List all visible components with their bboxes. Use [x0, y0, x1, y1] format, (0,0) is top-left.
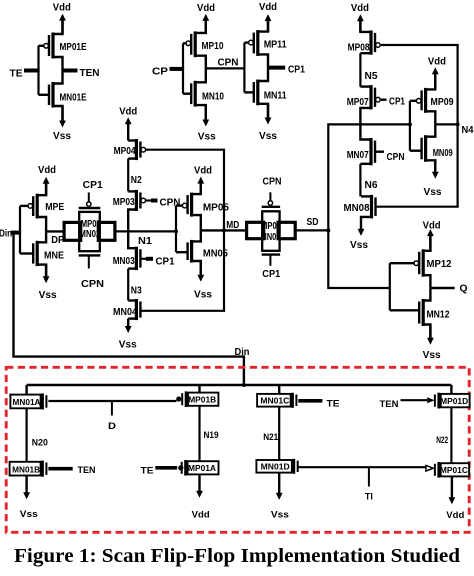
- power Vdd of MP08: [359, 19, 361, 32]
- transistor MP10 (PMOS): [194, 31, 197, 57]
- wire TE stub at MP01A: [155, 466, 177, 470]
- wire Din rail down to scan section: [14, 233, 244, 386]
- svg-text:Vdd: Vdd: [38, 165, 56, 176]
- svg-text:Vss: Vss: [350, 240, 368, 251]
- svg-text:N5: N5: [365, 71, 378, 82]
- svg-text:SD: SD: [307, 217, 319, 228]
- gate arrow of MP01C (hollow): [426, 465, 433, 471]
- wire Din input stub: [11, 231, 21, 235]
- transistor MN01A (scan NMOS): [25, 385, 27, 395]
- svg-text:Vss: Vss: [198, 131, 216, 142]
- transistor MP09 (PMOS): [424, 88, 427, 113]
- svg-text:MN04: MN04: [113, 307, 137, 318]
- node N2 wire: [127, 159, 129, 192]
- wire scan top rail: [27, 384, 452, 386]
- power Vdd of MP01A: [198, 474, 200, 493]
- transistor MP05 (PMOS): [190, 193, 193, 217]
- svg-text:TEN: TEN: [380, 399, 399, 410]
- node N5 wire: [359, 53, 361, 86]
- svg-text:MPE: MPE: [45, 202, 64, 213]
- svg-text:CP1: CP1: [389, 97, 405, 108]
- wire Q output stub: [430, 287, 454, 289]
- ground Vss of MN04: [127, 319, 129, 329]
- gate dot of MP01B: [176, 396, 181, 401]
- svg-text:TEN: TEN: [80, 68, 100, 79]
- svg-text:MP03: MP03: [113, 197, 135, 208]
- transistor MN01E (NMOS): [51, 82, 54, 108]
- svg-text:Vss: Vss: [20, 509, 38, 520]
- transistor MN05 (NMOS): [190, 240, 193, 263]
- power Vdd of MPE: [45, 181, 47, 195]
- node N3 wire: [127, 269, 129, 301]
- wire CP inverter gate wire: [182, 43, 184, 93]
- svg-text:MP09: MP09: [431, 97, 454, 108]
- svg-text:MNE: MNE: [44, 251, 64, 262]
- ground Vss of CP inverter: [205, 105, 207, 122]
- svg-text:TE: TE: [327, 399, 340, 410]
- transistor MN09 (NMOS): [424, 135, 427, 162]
- svg-text:N4: N4: [462, 125, 474, 136]
- svg-text:MP01D: MP01D: [440, 396, 468, 406]
- svg-text:Vdd: Vdd: [423, 220, 441, 231]
- transistor MP12 (PMOS): [422, 249, 425, 276]
- svg-text:N1: N1: [138, 236, 152, 247]
- wire TE stub at MN01C: [298, 399, 322, 403]
- node N22 wire: [450, 407, 452, 463]
- transistor MP07 (PMOS, mirrored): [369, 85, 372, 109]
- svg-text:Vss: Vss: [271, 510, 289, 521]
- transistor MP03 (PMOS, mirrored): [135, 190, 138, 211]
- power Vdd of CP1 inverter: [267, 19, 269, 32]
- transistor MN07 (NMOS, mirrored): [369, 138, 372, 165]
- wire MP07 gate stub: [381, 98, 387, 100]
- svg-text:MN11: MN11: [264, 91, 287, 102]
- wire feedback from MD to MP04 MN04 gates: [223, 150, 225, 311]
- wire TEN stub at MN01B: [48, 467, 72, 471]
- svg-text:Vss: Vss: [194, 290, 212, 301]
- transistor MP01B (scan PMOS): [198, 385, 200, 393]
- power Vdd of MP12: [429, 234, 431, 251]
- wire MP05 MN05 gate wire: [175, 206, 177, 253]
- transistor MPE (PMOS): [36, 194, 39, 219]
- wire N4 output line: [435, 123, 457, 125]
- transistor MN01C (scan NMOS): [278, 385, 280, 394]
- wire MP09 MN09 gate wire: [409, 101, 411, 151]
- svg-text:Vss: Vss: [53, 131, 71, 142]
- wire MP04 gate lead to feedback: [146, 149, 225, 151]
- ground Vss of MN01B: [25, 476, 27, 495]
- svg-text:MN09: MN09: [433, 148, 453, 159]
- svg-text:Figure 1: Scan Flip-Flop Imple: Figure 1: Scan Flip-Flop Implementation …: [14, 545, 460, 567]
- svg-text:Vss: Vss: [424, 187, 442, 198]
- svg-text:MN03: MN03: [113, 256, 135, 267]
- svg-text:MN05: MN05: [203, 249, 228, 260]
- svg-text:CP1: CP1: [288, 65, 305, 76]
- wire TEN output stub: [63, 69, 78, 73]
- svg-text:Vss: Vss: [423, 350, 441, 361]
- wire MN03 gate stub: [141, 258, 146, 260]
- wire CPN net between clock inverters: [206, 67, 246, 69]
- power Vdd of MP09: [434, 72, 436, 90]
- svg-text:CP1: CP1: [83, 180, 103, 191]
- svg-text:Vdd: Vdd: [351, 3, 369, 14]
- svg-text:N19: N19: [204, 430, 219, 440]
- svg-text:Din: Din: [0, 228, 12, 239]
- node N20 wire: [26, 408, 28, 462]
- power Vdd of MP04: [127, 122, 129, 141]
- ground Vss of TE inverter: [61, 106, 63, 123]
- node N19 wire: [198, 406, 200, 461]
- transistor MN11 (NMOS): [256, 80, 259, 106]
- svg-text:MN10: MN10: [202, 91, 224, 102]
- gate dot of MP01A: [178, 465, 183, 470]
- svg-text:MP01E: MP01E: [60, 42, 87, 53]
- svg-text:MP06: MP06: [261, 221, 281, 232]
- svg-text:MP05: MP05: [203, 202, 229, 213]
- svg-text:D: D: [108, 421, 116, 432]
- transistor MP08 (PMOS, mirrored): [369, 30, 372, 54]
- transmission gate MP02 MN02: [79, 212, 100, 251]
- wire TI line from MN01D gate to MP01C gate: [298, 466, 425, 468]
- svg-text:Vss: Vss: [259, 131, 277, 142]
- wire latch feedback vertical: [457, 45, 459, 207]
- svg-text:MP10: MP10: [202, 41, 224, 52]
- transistor MP01A (scan PMOS): [184, 460, 187, 476]
- svg-text:MN01D: MN01D: [261, 461, 290, 471]
- svg-text:N20: N20: [32, 438, 48, 448]
- svg-text:N21: N21: [263, 432, 278, 442]
- power Vdd of MP05: [200, 181, 202, 194]
- ground Vss of CP1 inverter: [267, 104, 269, 120]
- transistor MP01E (PMOS): [51, 33, 54, 59]
- svg-text:MP04: MP04: [114, 146, 136, 157]
- svg-text:Vdd: Vdd: [194, 165, 212, 176]
- svg-text:Vdd: Vdd: [428, 57, 446, 68]
- svg-text:MN01A: MN01A: [13, 397, 41, 407]
- power Vdd of MP01C: [451, 476, 453, 499]
- svg-text:MN08: MN08: [344, 203, 370, 214]
- transistor MP01C (scan PMOS): [437, 462, 440, 478]
- wire Din inverter gate wire: [19, 206, 21, 254]
- svg-text:N22: N22: [436, 435, 448, 445]
- svg-text:MD: MD: [226, 220, 239, 231]
- transistor MP11 (PMOS): [256, 30, 259, 56]
- svg-text:CP: CP: [152, 67, 168, 78]
- transistor MNE (NMOS): [36, 241, 39, 266]
- svg-text:TI: TI: [365, 492, 373, 503]
- wire TEN stub at MP01D: [401, 399, 428, 401]
- svg-text:Q: Q: [460, 283, 468, 294]
- ground Vss of MN05: [200, 261, 202, 277]
- power Vdd of TE inverter: [61, 18, 63, 34]
- svg-text:CP1: CP1: [156, 256, 175, 267]
- ground Vss of MN09: [434, 160, 436, 174]
- svg-text:MN01B: MN01B: [12, 464, 40, 474]
- svg-text:MP12: MP12: [427, 259, 452, 270]
- svg-text:MP01C: MP01C: [440, 465, 468, 475]
- node N6 wire: [359, 164, 361, 197]
- svg-text:MP11: MP11: [264, 40, 287, 51]
- svg-text:N6: N6: [365, 180, 378, 191]
- svg-text:MP07: MP07: [347, 97, 369, 108]
- svg-text:CPN: CPN: [218, 58, 239, 69]
- svg-text:MN07: MN07: [347, 150, 369, 161]
- svg-text:TE: TE: [141, 465, 154, 476]
- svg-text:MN01E: MN01E: [60, 93, 87, 104]
- scan section dashed red boundary: [6, 367, 469, 532]
- wire MN07 gate stub: [376, 150, 384, 152]
- svg-text:Vdd: Vdd: [119, 106, 137, 117]
- transistor MN03 (NMOS, mirrored): [135, 247, 138, 270]
- svg-text:Vdd: Vdd: [53, 2, 71, 13]
- transistor MN04 (NMOS, mirrored): [135, 299, 138, 320]
- transistor MN10 (NMOS): [194, 81, 197, 107]
- wire MN04 gate lead to feedback: [141, 310, 225, 312]
- svg-text:MP01B: MP01B: [188, 395, 216, 405]
- svg-text:MN06: MN06: [261, 232, 281, 243]
- wire MP03 gate stub: [146, 199, 151, 201]
- svg-text:MN12: MN12: [427, 309, 450, 320]
- svg-text:MP01A: MP01A: [188, 463, 216, 473]
- wire CP1 output stub: [268, 66, 285, 70]
- svg-text:CPN: CPN: [263, 176, 282, 187]
- svg-text:Vdd: Vdd: [192, 509, 210, 520]
- wire MP12 MN12 gate wire: [389, 263, 391, 310]
- wire TE inverter gate wire: [37, 46, 39, 95]
- node TI label with stub: [368, 467, 370, 486]
- svg-text:N3: N3: [131, 285, 142, 296]
- svg-text:Vss: Vss: [119, 340, 137, 351]
- svg-text:Din: Din: [235, 347, 250, 358]
- svg-text:TEN: TEN: [78, 465, 96, 476]
- wire D line from MN01A gate to MP01B gate: [48, 400, 176, 402]
- svg-text:MN01C: MN01C: [260, 395, 289, 405]
- wire MN08 gate to feedback: [377, 206, 459, 208]
- gate arrow of MP01D (filled): [427, 397, 434, 403]
- wire SD vertical to latch and Q: [328, 124, 411, 288]
- wire MD output line: [201, 229, 247, 231]
- junction latch storage node: [359, 123, 362, 126]
- svg-text:CPN: CPN: [81, 279, 104, 290]
- transmission gate MP06 MN06: [262, 211, 279, 251]
- ground Vss of MN12: [429, 325, 431, 341]
- node D label with stub: [111, 401, 113, 416]
- wire MP08 gate to feedback: [381, 44, 459, 46]
- power Vdd of CP inverter: [205, 18, 207, 33]
- svg-text:Vdd: Vdd: [446, 510, 464, 521]
- ground Vss of MN01D: [278, 473, 280, 496]
- wire CP input stub: [170, 67, 185, 71]
- svg-text:CP1: CP1: [262, 269, 280, 280]
- svg-text:MP08: MP08: [348, 43, 370, 54]
- svg-text:CPN: CPN: [387, 152, 405, 163]
- svg-text:Vss: Vss: [39, 290, 57, 301]
- transistor MN01B (scan NMOS): [41, 461, 44, 477]
- svg-text:Vdd: Vdd: [197, 3, 215, 14]
- wire N1 line: [114, 230, 177, 232]
- node N21 wire: [278, 407, 280, 460]
- ground Vss of MNE: [45, 265, 47, 279]
- wire SD line: [295, 229, 329, 231]
- svg-text:MN02: MN02: [79, 229, 100, 240]
- transistor MN12 (NMOS): [422, 299, 425, 326]
- svg-text:N2: N2: [131, 175, 142, 186]
- wire CPN inverter gate wire: [243, 43, 245, 93]
- transistor MP01D (scan PMOS): [450, 385, 452, 394]
- transistor MN01D (scan NMOS): [293, 459, 296, 474]
- transistor MN08 (NMOS, mirrored): [370, 195, 373, 219]
- wire DP output line: [46, 230, 65, 232]
- svg-text:TE: TE: [10, 68, 23, 79]
- transistor MP04 (PMOS, mirrored): [135, 139, 138, 160]
- wire TE input stub: [24, 69, 40, 73]
- ground Vss of MN08: [360, 228, 362, 231]
- svg-text:Vdd: Vdd: [259, 2, 277, 13]
